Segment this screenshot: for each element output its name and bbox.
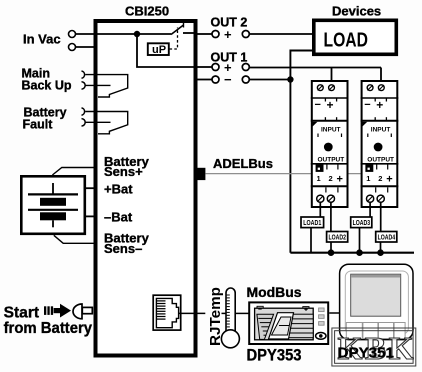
svg-text:OUTPUT: OUTPUT xyxy=(318,157,345,164)
DPY353 eye xyxy=(316,333,326,340)
LOAD3 box xyxy=(351,217,372,228)
svg-text:+Bat: +Bat xyxy=(104,182,133,197)
LOAD1 box xyxy=(301,217,324,228)
wire drop module2 screw2 xyxy=(380,68,382,86)
svg-text:+: + xyxy=(327,98,334,112)
wire -Bat xyxy=(85,215,95,217)
svg-text:Sens+: Sens+ xyxy=(104,164,143,179)
wire In Vac L xyxy=(76,33,98,35)
svg-text:Back Up: Back Up xyxy=(22,79,72,93)
svg-text:+: + xyxy=(337,174,343,186)
module M1 xyxy=(311,81,349,207)
LOAD2 box xyxy=(327,232,348,243)
terminal OUT1 -a xyxy=(212,76,219,83)
wire uP dashed control xyxy=(170,28,178,50)
watermark KBK box xyxy=(332,328,416,366)
svg-text:ADELBus: ADELBus xyxy=(213,156,273,171)
svg-text:LOAD: LOAD xyxy=(324,30,369,52)
wire junction A down xyxy=(137,34,196,67)
wire switch to OUT2 xyxy=(183,32,196,34)
svg-text:−: − xyxy=(315,99,321,111)
relay contact K2 xyxy=(85,112,128,134)
wire drop module1 screw2 xyxy=(331,68,333,86)
node LOAD2 junction xyxy=(328,249,335,256)
terminal Main arc2 xyxy=(82,82,86,89)
wire internal L rail xyxy=(97,33,171,35)
wire LOAD4 down xyxy=(380,242,382,253)
wire LOAD3 down xyxy=(359,228,361,253)
module M2 xyxy=(361,81,399,207)
wire LOAD1 down xyxy=(310,228,312,253)
terminal Fault arc1 xyxy=(82,108,85,115)
wire +Bat xyxy=(85,187,95,189)
node OUT1- junction xyxy=(287,76,293,82)
svg-text:Start: Start xyxy=(4,305,40,322)
wire ADELBus xyxy=(205,173,369,175)
svg-text:Sens–: Sens– xyxy=(104,241,142,256)
svg-text:In Vac: In Vac xyxy=(23,32,61,47)
wire box to OUT1-a xyxy=(198,79,213,81)
svg-text:uP: uP xyxy=(152,44,166,56)
switch S1 blade xyxy=(171,25,184,35)
svg-text:–Bat: –Bat xyxy=(104,210,133,225)
DPY353 LEDs xyxy=(319,308,325,312)
DPY353 meter box xyxy=(249,302,328,344)
battery BT1 box xyxy=(21,176,85,234)
thermometer icon xyxy=(226,288,235,333)
terminal OUT1 -b xyxy=(242,76,249,83)
terminal OUT1 +a xyxy=(212,64,219,71)
svg-text:Fault: Fault xyxy=(23,117,54,131)
svg-text:INPUT: INPUT xyxy=(321,127,341,134)
node LOAD4 junction xyxy=(377,249,384,256)
wire OUT2b to LOAD xyxy=(249,33,312,35)
svg-text:DPY353: DPY353 xyxy=(247,346,302,365)
LOAD4 box xyxy=(376,232,397,243)
svg-text:from Battery: from Battery xyxy=(4,320,93,337)
wire RJ45 to RJTemp xyxy=(179,312,206,314)
wire battery sens+ xyxy=(52,168,95,176)
terminal OUT2 a xyxy=(212,31,219,38)
op-amp uP box xyxy=(148,43,169,55)
icon push button xyxy=(73,304,82,319)
connector RJ45 jack xyxy=(153,295,181,330)
wire box to OUT2a xyxy=(198,33,213,35)
wire module2 screw-b2 to LOAD4 xyxy=(380,202,382,232)
svg-text:ModBus: ModBus xyxy=(247,284,302,300)
node junction A xyxy=(134,31,140,37)
svg-text:CBI250: CBI250 xyxy=(125,4,169,19)
wire module1 screw-b1 to LOAD1 xyxy=(319,202,321,217)
wire OUT1-b to return rail xyxy=(249,79,290,81)
node LOAD3 junction xyxy=(356,249,363,256)
svg-text:LOAD1: LOAD1 xyxy=(303,218,321,227)
wire RJTemp to thermometer xyxy=(222,312,227,314)
switch S1 fixed contact xyxy=(183,23,185,28)
terminal In Vac L xyxy=(69,31,76,38)
terminal OUT2 b xyxy=(242,31,249,38)
battery BT1 symbol xyxy=(28,183,78,227)
wire DPY353 to DPY351 xyxy=(329,312,339,314)
svg-text:1: 1 xyxy=(317,174,321,183)
svg-text:+: + xyxy=(224,27,232,42)
svg-text:LOAD3: LOAD3 xyxy=(353,218,371,227)
wire LOAD return xyxy=(290,51,312,253)
terminal In Vac N xyxy=(69,44,76,51)
DPY351 display unit xyxy=(340,264,413,339)
wire box to OUT1+a xyxy=(198,66,213,68)
wire OUT1+b to modules xyxy=(249,67,381,69)
wire In Vac N xyxy=(76,46,98,48)
DPY353 panel graphic xyxy=(255,306,314,340)
wire battery sens- xyxy=(54,235,95,243)
icon start arrow xyxy=(54,308,61,313)
svg-text:−: − xyxy=(224,72,232,87)
svg-text:LOAD4: LOAD4 xyxy=(378,233,396,242)
ADELBus connector on CBI xyxy=(195,168,205,180)
terminal Main arc1 xyxy=(82,71,85,78)
svg-text:2: 2 xyxy=(329,174,333,183)
LOAD box xyxy=(314,20,397,54)
svg-text:LOAD2: LOAD2 xyxy=(329,233,347,242)
terminal OUT1 +b xyxy=(242,64,249,71)
relay contact K1 xyxy=(85,75,128,97)
CBI250 main box U1 xyxy=(96,21,196,356)
svg-text:Devices: Devices xyxy=(332,3,381,18)
icon start bars xyxy=(44,306,53,315)
wire module1 screw-b2 to LOAD2 xyxy=(330,202,332,232)
wire LOAD2 down xyxy=(330,242,332,253)
wire bottom bus xyxy=(290,252,414,254)
wire thermometer to DPY353 xyxy=(236,312,249,314)
terminal Fault arc2 xyxy=(82,119,86,126)
wire module2 screw-b1 to LOAD3 xyxy=(369,202,371,217)
svg-text:DPY351: DPY351 xyxy=(338,345,395,362)
